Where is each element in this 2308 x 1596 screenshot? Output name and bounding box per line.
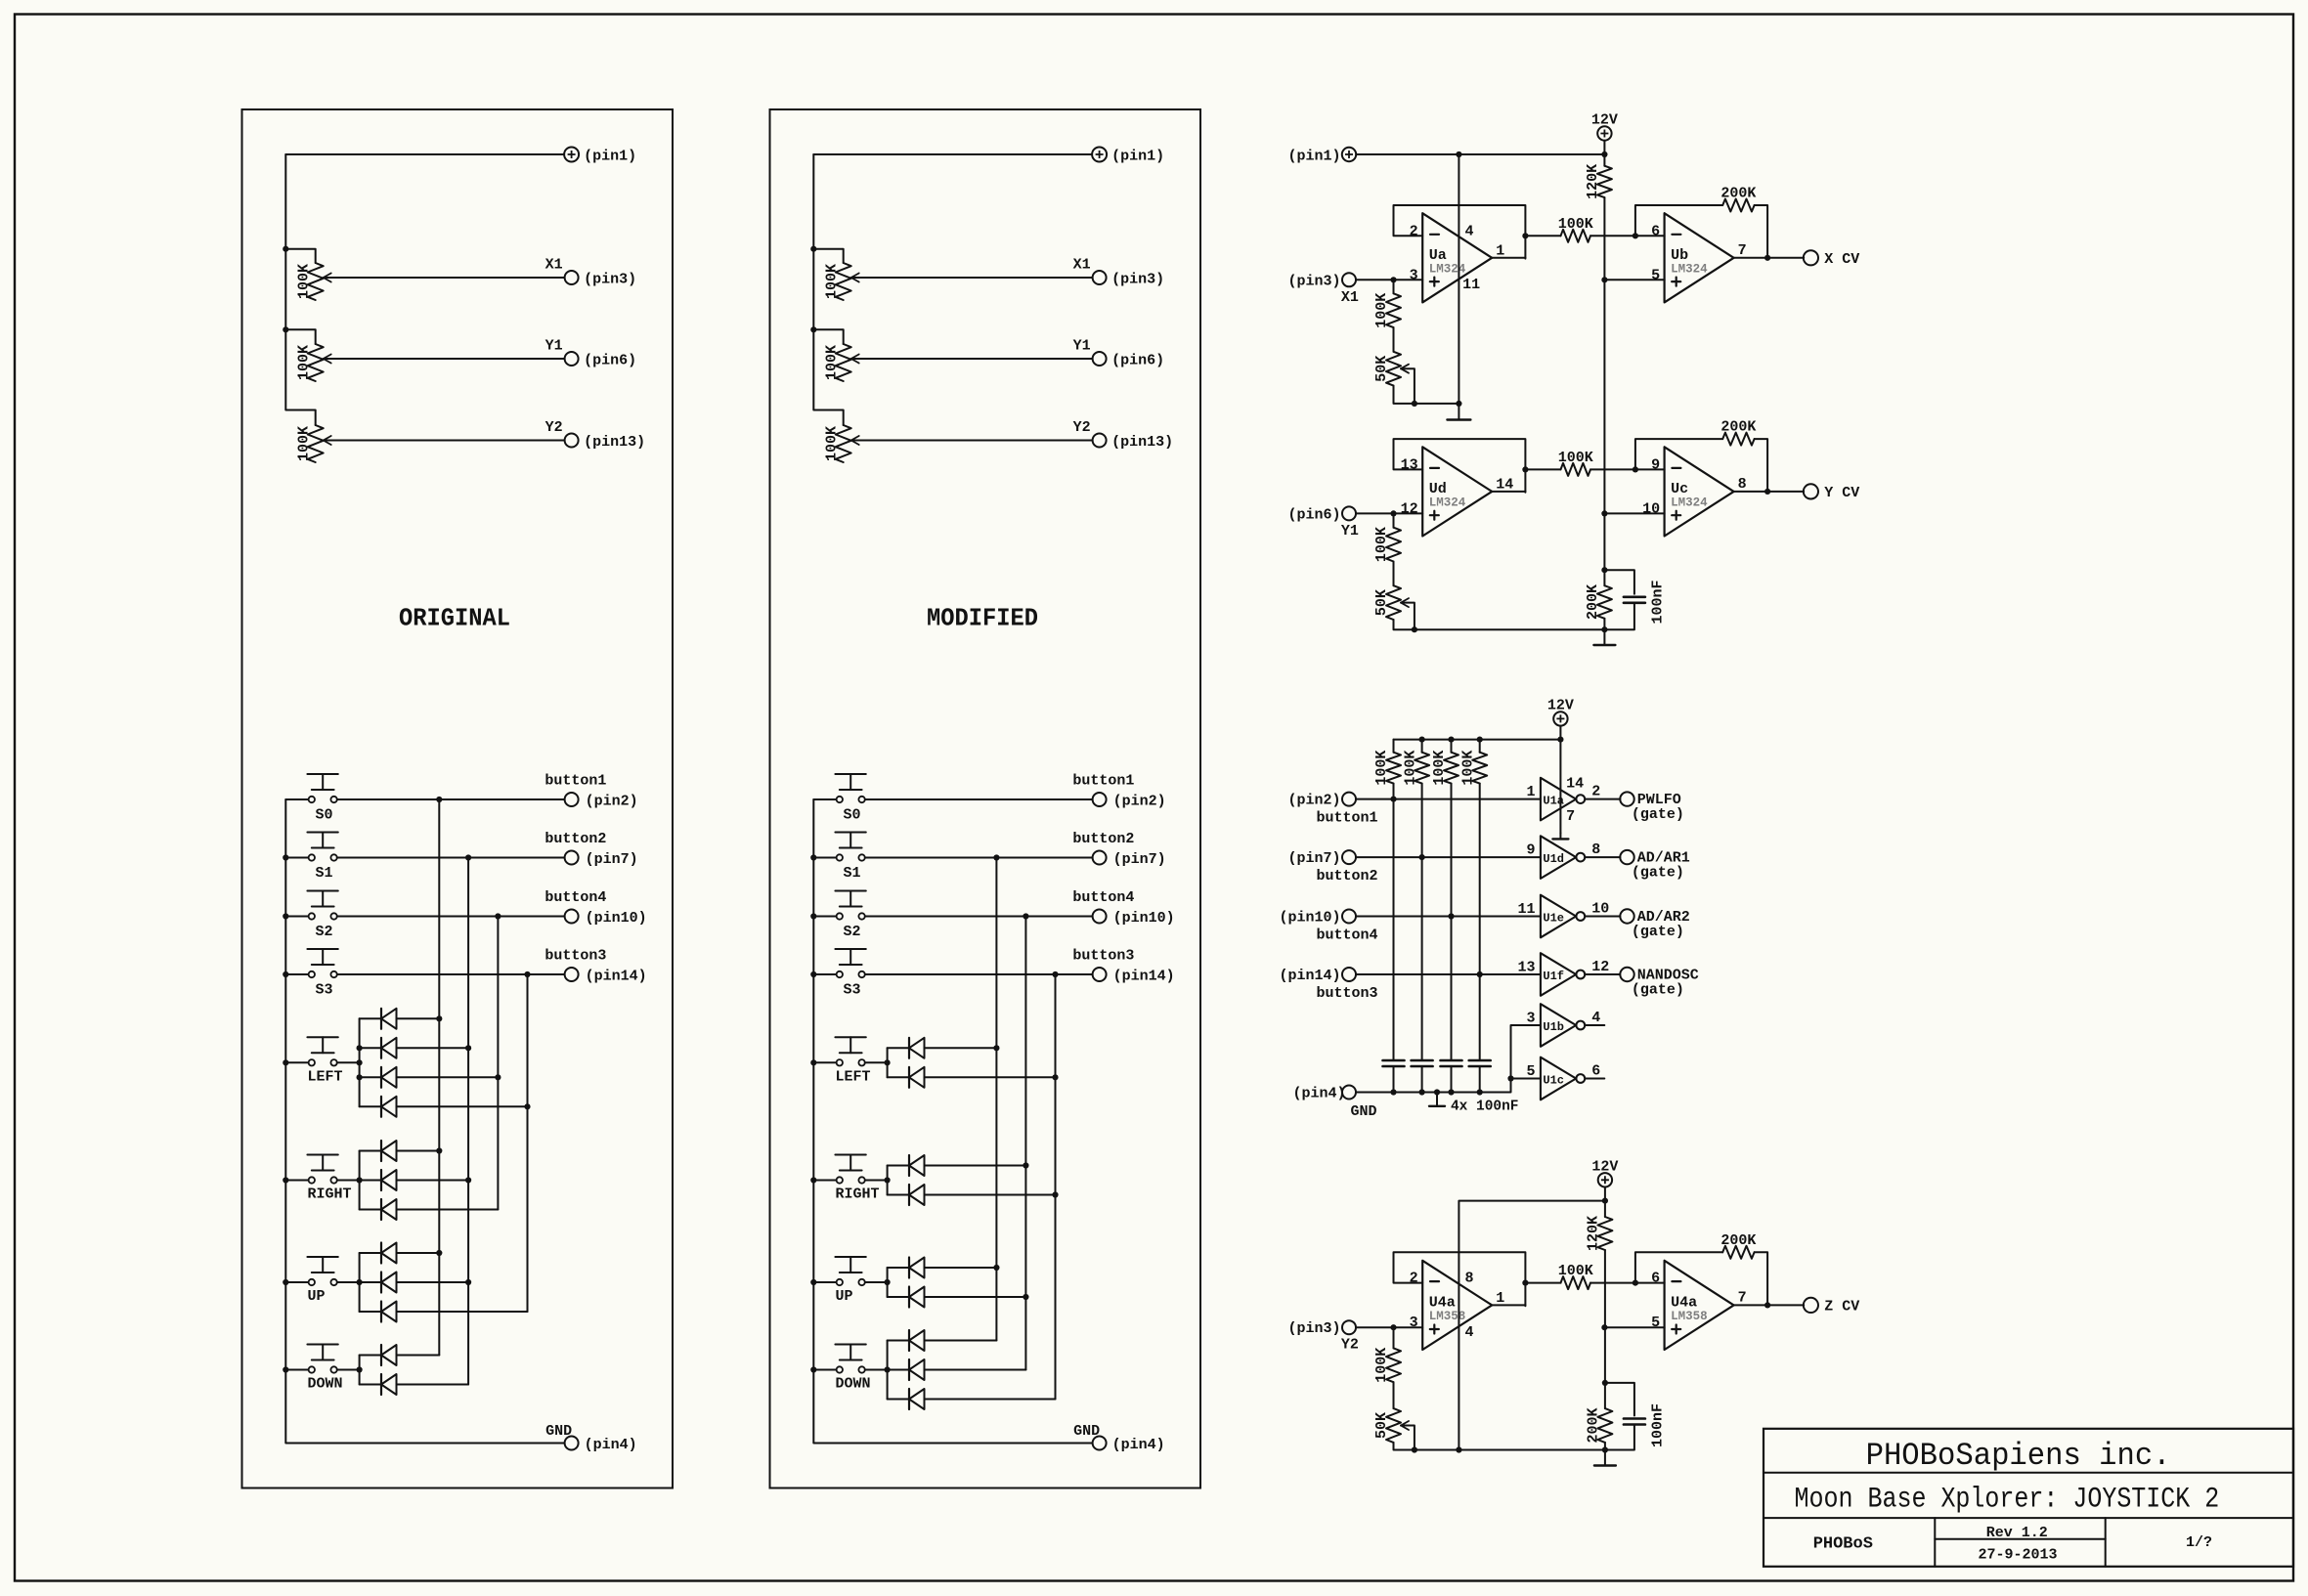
wire U1f output (1585, 973, 1620, 975)
svg-text:U1f: U1f (1543, 970, 1564, 983)
switch LEFT orig (285, 1037, 338, 1065)
pin label 13 Ud (1401, 456, 1418, 473)
pin label 7 U4a (1738, 1289, 1747, 1306)
svg-text:200K: 200K (1720, 186, 1756, 202)
label 200K rc z (1586, 1407, 1602, 1443)
junction 50K wiper z (1412, 1446, 1417, 1452)
inverter U1e (1541, 895, 1585, 938)
junction UP D2 mod (1023, 1294, 1028, 1300)
wire S1 output orig (337, 857, 565, 859)
svg-text:LEFT: LEFT (308, 1068, 343, 1085)
resistor 200K z (1722, 1246, 1754, 1259)
label (gate) AD/AR2 (1632, 924, 1684, 940)
svg-text:(pin1): (pin1) (1111, 149, 1164, 165)
pin (pin3) mod (1093, 271, 1165, 288)
svg-text:8: 8 (1738, 476, 1747, 493)
svg-text:LM358: LM358 (1429, 1310, 1466, 1323)
switch S1 mod (813, 833, 866, 861)
diode RIGHT D2 mod (888, 1185, 1056, 1205)
wire 100K-50K z (1393, 1327, 1395, 1408)
junction UP orig (357, 1279, 363, 1285)
svg-text:(gate): (gate) (1632, 982, 1684, 999)
pin (pin7) button2 orig (565, 851, 638, 869)
svg-text:Uc: Uc (1671, 481, 1688, 497)
potentiometer 50K x (1386, 352, 1401, 386)
junction rail RC top (1601, 567, 1607, 573)
svg-text:Ub: Ub (1671, 247, 1688, 264)
label button4 mod (1072, 889, 1134, 906)
label Y1 mod (1073, 338, 1091, 355)
label 100K pullup R3 (1431, 751, 1448, 786)
label 100nF y (1650, 580, 1667, 624)
wire pin1 feed (1356, 153, 1604, 155)
wire pin3-U4a (1356, 1326, 1422, 1328)
svg-text:100K: 100K (1373, 293, 1390, 328)
wiper Y1 orig (324, 355, 331, 364)
pin PWLFO gate output (1620, 792, 1633, 805)
svg-text:200K: 200K (1585, 584, 1601, 620)
pin (pin10) mid (1279, 910, 1356, 927)
svg-text:4: 4 (1465, 1324, 1474, 1341)
svg-text:11: 11 (1462, 277, 1480, 293)
label button1 orig (544, 773, 606, 790)
junction rail orig y1401 (283, 1366, 288, 1372)
potentiometer 100K X1 orig lead (285, 249, 315, 263)
junction cap C2 gnd (1419, 1089, 1425, 1095)
wiper X1 orig (324, 274, 331, 282)
wire rail-U4a noninverting (1604, 1326, 1664, 1328)
svg-text:13: 13 (1517, 960, 1535, 976)
label 50K y (1373, 589, 1390, 616)
svg-text:9: 9 (1651, 456, 1660, 473)
wire S0 output orig (337, 798, 565, 800)
junction RIGHT mod (885, 1177, 891, 1183)
wire 200K feedback U4a left (1635, 1252, 1722, 1282)
label GND mid (1351, 1103, 1377, 1120)
junction LEFT tap orig (357, 1074, 363, 1080)
wire rail-Uc noninverting (1604, 512, 1664, 514)
wire wiper Y1 orig (324, 358, 565, 360)
svg-text:50K: 50K (1373, 1412, 1390, 1439)
label 200K x (1720, 186, 1756, 202)
resistor 100K z (1561, 1276, 1591, 1289)
switch S3 mod (813, 949, 866, 977)
label (gate) AD/AR1 (1632, 865, 1684, 882)
label button2 orig (544, 831, 606, 847)
wire S3 output mod (865, 973, 1093, 975)
svg-text:5: 5 (1526, 1063, 1535, 1080)
svg-text:2: 2 (1410, 1271, 1418, 1287)
junction pin1-Ua supply (1456, 151, 1461, 157)
junction bus button1 orig (436, 797, 442, 802)
wire pin6-Ud (1356, 512, 1422, 514)
capacitor 100nF y (1604, 570, 1645, 629)
svg-text:button1: button1 (544, 773, 606, 790)
pin (pin14) mid (1279, 968, 1356, 984)
junction pin3 divider z (1390, 1324, 1396, 1330)
junction pin6 divider (1390, 510, 1396, 516)
wire (pin14)-gate (1356, 973, 1541, 975)
resistor 100K x (1561, 230, 1591, 242)
pin (pin2) button1 mod (1093, 793, 1166, 810)
svg-text:(gate): (gate) (1632, 806, 1684, 823)
svg-text:button2: button2 (544, 831, 606, 847)
pin label 9 Uc (1651, 456, 1660, 473)
pin label 5 U4a (1651, 1315, 1660, 1331)
label button3 mod (1072, 948, 1134, 965)
label 50K x (1373, 356, 1390, 382)
svg-text:(pin4): (pin4) (585, 1437, 637, 1453)
capacitor 100nF C2 (1412, 1060, 1433, 1093)
svg-text:5: 5 (1651, 267, 1660, 283)
junction 50K wiper x (1412, 401, 1417, 407)
svg-text:Y1: Y1 (1341, 523, 1359, 539)
wire S1 output mod (865, 857, 1093, 859)
diode DOWN D1 mod (888, 1330, 997, 1351)
pin (pin1) orig (564, 148, 636, 165)
junction rail Uc+ (1601, 510, 1607, 516)
svg-text:10: 10 (1642, 500, 1660, 517)
wire RIGHT output mod (865, 1180, 888, 1182)
resistor 100K pullup R2 (1415, 740, 1429, 1060)
inverter U1c (1541, 1057, 1585, 1100)
svg-text:100K: 100K (295, 345, 312, 380)
label GND mod (1073, 1423, 1100, 1440)
svg-text:Moon Base Xplorer: JOYSTICK 2: Moon Base Xplorer: JOYSTICK 2 (1795, 1484, 2220, 1517)
pin label 14 Ud (1496, 476, 1513, 493)
wire RIGHT diode bus orig (359, 1151, 361, 1210)
resistor 100K yin (1386, 528, 1401, 562)
pin label 12 U1f (1591, 959, 1609, 975)
svg-text:button2: button2 (1317, 868, 1378, 884)
junction 12V z (1602, 1198, 1608, 1204)
pin label 6 Ub (1651, 223, 1660, 239)
wire LEFT diode bus orig (359, 1018, 361, 1106)
wire U1d output (1585, 856, 1620, 858)
label 100K zin (1373, 1348, 1390, 1383)
svg-text:(pin3): (pin3) (1287, 1320, 1340, 1337)
svg-text:100nF: 100nF (1650, 580, 1667, 624)
junction pin1-12V (1601, 151, 1607, 157)
svg-text:120K: 120K (1586, 1216, 1602, 1251)
svg-text:(pin1): (pin1) (1287, 148, 1340, 164)
svg-text:LM324: LM324 (1671, 262, 1708, 276)
wire LEFT output orig (337, 1061, 360, 1063)
label 100K Y1 orig (295, 345, 312, 380)
switch S2 orig (285, 891, 338, 920)
pin label 3 U1b (1526, 1011, 1535, 1027)
junction RIGHT orig (357, 1177, 363, 1183)
junction U1c input (1507, 1075, 1513, 1081)
wire U1c output (1585, 1078, 1604, 1080)
wire (pin2)-gate (1356, 798, 1541, 800)
junction bus button3 orig (524, 971, 530, 977)
ground U1a (1552, 833, 1568, 839)
junction LEFT D2 mod (1052, 1074, 1058, 1080)
switch LEFT mod (813, 1037, 866, 1065)
svg-text:(pin6): (pin6) (1111, 353, 1164, 369)
label Y1 right (1341, 523, 1359, 539)
pin label 6 U1c (1591, 1062, 1600, 1079)
svg-text:100K: 100K (295, 426, 312, 461)
wire wiper Y2 mod (851, 440, 1093, 442)
wire wiper Y2 orig (324, 440, 565, 442)
svg-text:7: 7 (1738, 242, 1747, 259)
wire pot rail orig (285, 154, 315, 425)
diode LEFT D1 orig (360, 1009, 440, 1029)
label RIGHT mod (836, 1186, 880, 1203)
switch UP orig (285, 1257, 338, 1285)
svg-text:button4: button4 (1317, 927, 1378, 944)
junction pullup R1 (1390, 797, 1396, 802)
svg-text:GND: GND (545, 1423, 572, 1440)
junction LEFT D1 orig (436, 1015, 442, 1021)
wire wiper Y1 mod (851, 358, 1093, 360)
svg-text:(pin4): (pin4) (1112, 1437, 1165, 1453)
junction mod pot Y1 (810, 326, 816, 332)
svg-text:9: 9 (1526, 842, 1535, 859)
svg-text:PHOBoS: PHOBoS (1813, 1534, 1873, 1553)
svg-text:14: 14 (1496, 476, 1513, 493)
wire 200K feedback Ub right (1755, 205, 1768, 258)
wire U1e output (1585, 916, 1620, 918)
junction LEFT orig (357, 1059, 363, 1065)
svg-text:Y1: Y1 (545, 338, 563, 355)
label 12V x (1591, 112, 1618, 129)
resistor 100K pullup R4 (1472, 740, 1487, 1060)
pin label 10 U1e (1591, 900, 1609, 917)
svg-text:Ua: Ua (1429, 247, 1447, 264)
label UP mod (836, 1288, 853, 1305)
svg-text:27-9-2013: 27-9-2013 (1978, 1546, 2057, 1563)
wiper X1 mod (851, 274, 859, 282)
pin label 10 Uc (1642, 500, 1660, 517)
svg-text:GND: GND (1351, 1103, 1377, 1120)
wire S3 output orig (337, 973, 565, 975)
svg-text:(pin3): (pin3) (1111, 272, 1164, 288)
svg-text:120K: 120K (1585, 164, 1601, 199)
svg-text:8: 8 (1465, 1271, 1474, 1287)
diode LEFT D1 mod (888, 1038, 997, 1058)
junction DOWN orig (357, 1366, 363, 1372)
potentiometer 50K y (1386, 585, 1401, 620)
pin Z CV output (1804, 1298, 1859, 1316)
junction rail mod y1401 (810, 1366, 816, 1372)
pin X CV output (1804, 250, 1859, 268)
pin (pin14) button3 mod (1093, 968, 1175, 985)
svg-text:(pin6): (pin6) (1287, 506, 1340, 523)
pin label 8 U4a (1465, 1271, 1474, 1287)
pin (pin14) button3 orig (565, 968, 647, 985)
junction rail orig y877 (283, 854, 288, 860)
pin label 12 Ud (1401, 500, 1418, 517)
label S2 orig (316, 924, 333, 940)
junction pullup R3 (1448, 913, 1454, 919)
diode UP D1 orig (360, 1243, 440, 1264)
wire pullup top rail (1394, 739, 1561, 741)
pin (pin13) mod (1093, 434, 1174, 452)
label button4 orig (544, 889, 606, 906)
label LEFT orig (308, 1068, 343, 1085)
inverter U1b (1541, 1004, 1585, 1047)
wire (pin10)-gate (1356, 916, 1541, 918)
pin label 3 U4a (1410, 1315, 1418, 1331)
svg-text:S3: S3 (316, 982, 333, 999)
svg-text:Ud: Ud (1429, 481, 1447, 497)
junction Ub output (1764, 255, 1770, 261)
svg-text:12: 12 (1401, 500, 1418, 517)
diode RIGHT D1 mod (888, 1155, 1026, 1176)
diode LEFT D3 orig (360, 1067, 499, 1088)
junction rail mod y1207 (810, 1177, 816, 1183)
svg-text:(pin14): (pin14) (1113, 969, 1175, 985)
junction LEFT tap orig (357, 1045, 363, 1051)
junction Ud output node (1522, 466, 1528, 472)
label S1 mod (844, 865, 861, 882)
svg-text:S1: S1 (316, 865, 333, 882)
wire UP output mod (865, 1281, 888, 1283)
label DOWN orig (308, 1376, 343, 1393)
svg-text:LM324: LM324 (1429, 496, 1466, 509)
junction rail mod y1312 (810, 1279, 816, 1285)
junction RIGHT D2 orig (465, 1177, 471, 1183)
svg-text:button3: button3 (1317, 985, 1378, 1002)
wire S0 output mod (865, 798, 1093, 800)
wire UP diode bus mod (887, 1268, 889, 1297)
svg-text:(pin7): (pin7) (1113, 851, 1166, 868)
junction orig pot X1 (283, 246, 288, 252)
label 120K x (1585, 164, 1601, 199)
wire bus button4 orig (497, 917, 499, 1210)
label (gate) PWLFO (1632, 806, 1684, 823)
svg-text:RIGHT: RIGHT (836, 1186, 880, 1203)
svg-text:6: 6 (1651, 1271, 1660, 1287)
svg-text:4: 4 (1591, 1010, 1600, 1026)
pin (pin7) button2 mod (1093, 851, 1166, 869)
svg-text:(gate): (gate) (1632, 924, 1684, 940)
pin (pin1) right (1287, 148, 1356, 165)
pin (pin10) button4 orig (565, 910, 647, 927)
wire U4a feedback frame (1394, 1252, 1526, 1306)
svg-text:button1: button1 (1317, 810, 1378, 827)
label 100K xin (1373, 293, 1390, 328)
potentiometer 100K Y1 mod lead (813, 329, 843, 344)
pin (pin10) button4 mod (1093, 910, 1175, 927)
wire Ua feedback frame (1394, 205, 1526, 259)
label S0 mod (844, 807, 861, 824)
svg-text:DOWN: DOWN (836, 1376, 871, 1393)
pin (pin6) orig (565, 352, 637, 369)
resistor 100K xin (1386, 293, 1401, 327)
label 12V mid (1547, 697, 1574, 713)
pin (pin6) mod (1093, 352, 1165, 369)
pin label 13 U1f (1517, 960, 1535, 976)
label 200K z (1720, 1232, 1756, 1249)
pin label 7 Ub (1738, 242, 1747, 259)
op-amp U4a (1422, 1261, 1492, 1350)
pin (pin3) right (1287, 273, 1356, 289)
svg-text:button4: button4 (1072, 889, 1134, 906)
svg-text:RIGHT: RIGHT (308, 1186, 352, 1203)
svg-text:DOWN: DOWN (308, 1376, 343, 1393)
wire 100K-Uc (1590, 468, 1665, 470)
junction bus button4 orig (495, 913, 501, 919)
wire LEFT diode bus mod (887, 1048, 889, 1077)
svg-text:100K: 100K (1373, 1348, 1390, 1383)
svg-text:200K: 200K (1586, 1407, 1602, 1443)
label S0 orig (316, 807, 333, 824)
junction rail orig y1312 (283, 1279, 288, 1285)
potentiometer 100K X1 mod body (836, 263, 851, 300)
label NANDOSC (1637, 968, 1699, 984)
label button2 mod (1072, 831, 1134, 847)
wire (pin7)-gate (1356, 856, 1541, 858)
junction LEFT D3 orig (495, 1074, 501, 1080)
label Y2 mod (1073, 419, 1091, 436)
label 100K Y1 mod (823, 345, 840, 380)
svg-text:U1b: U1b (1543, 1020, 1564, 1034)
inverter U1d (1541, 836, 1585, 879)
svg-text:100K: 100K (823, 345, 840, 380)
pin label 2 U4a (1410, 1271, 1418, 1287)
junction Ub inverting node (1633, 233, 1638, 238)
wire 100K-U4a (1590, 1282, 1665, 1284)
wire 100K-50K x (1393, 280, 1395, 352)
wire wiper X1 orig (324, 277, 565, 279)
label 100K pullup R2 (1402, 751, 1418, 786)
label 100K X1 orig (295, 264, 312, 299)
label 200K rc y (1585, 584, 1601, 620)
wire U4a-100K (1525, 1282, 1560, 1284)
pin (pin13) orig (565, 434, 646, 452)
label 100K Y2 orig (295, 426, 312, 461)
svg-text:3: 3 (1410, 267, 1418, 283)
svg-text:U1c: U1c (1543, 1073, 1564, 1087)
svg-text:(gate): (gate) (1632, 865, 1684, 882)
resistor 100K pullup R3 (1444, 740, 1459, 1060)
junction rail mod y937 (810, 913, 816, 919)
wire pin3-Ua (1356, 279, 1422, 280)
diode RIGHT D2 orig (360, 1170, 469, 1190)
wire 12V rail z (1604, 1201, 1606, 1409)
svg-text:7: 7 (1566, 808, 1575, 825)
ORIGINAL box frame (242, 109, 674, 1488)
capacitor 100nF z (1605, 1383, 1645, 1450)
wire S2 output orig (337, 916, 565, 918)
pin Y CV output (1804, 484, 1859, 501)
label GND orig (545, 1423, 572, 1440)
pin label 4 Ua (1465, 223, 1474, 239)
op-amp Ub (1665, 213, 1734, 302)
pin label 5 U1c (1526, 1063, 1535, 1080)
resistor 200K y (1722, 433, 1754, 446)
switch RIGHT orig (285, 1155, 338, 1184)
title block divider 2 (1764, 1517, 2293, 1519)
junction orig pot Y1 (283, 326, 288, 332)
MODIFIED box frame (770, 109, 1201, 1488)
label X1 mod (1073, 257, 1091, 274)
inverter U1a (1541, 778, 1585, 821)
svg-text:6: 6 (1651, 223, 1660, 239)
ground mid (1429, 1093, 1445, 1106)
label PHOBoS (1813, 1534, 1873, 1553)
label S1 orig (316, 865, 333, 882)
junction U4a output (1764, 1302, 1770, 1308)
junction Ua output node (1522, 233, 1528, 238)
svg-text:10: 10 (1591, 900, 1609, 917)
label X1 right (1341, 289, 1359, 306)
junction bus button4 mod (1023, 913, 1028, 919)
